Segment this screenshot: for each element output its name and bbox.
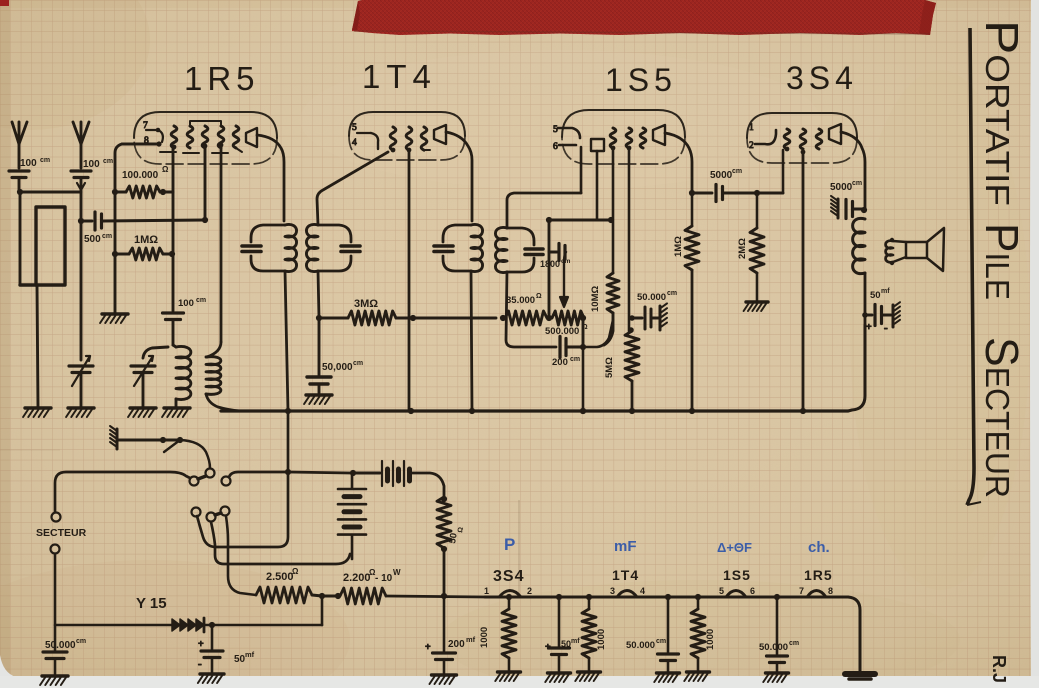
- svg-text:1000: 1000: [596, 629, 607, 650]
- svg-text:7: 7: [799, 586, 804, 596]
- svg-text:50: 50: [234, 654, 246, 665]
- svg-text:2MΩ: 2MΩ: [737, 238, 748, 259]
- svg-text:cm: cm: [789, 640, 799, 647]
- svg-text:-: -: [198, 658, 202, 670]
- svg-text:SECTEUR: SECTEUR: [36, 527, 87, 539]
- svg-text:4: 4: [640, 586, 645, 596]
- svg-text:3S4: 3S4: [786, 60, 858, 96]
- svg-text:50.000: 50.000: [45, 640, 76, 651]
- svg-text:3MΩ: 3MΩ: [354, 298, 378, 310]
- svg-text:50,000: 50,000: [322, 362, 353, 373]
- svg-text:- 10: - 10: [375, 573, 393, 584]
- svg-text:cm: cm: [852, 180, 862, 187]
- svg-text:4: 4: [352, 138, 357, 148]
- svg-text:6: 6: [553, 142, 558, 152]
- svg-text:cm: cm: [40, 157, 50, 164]
- svg-text:1S5: 1S5: [723, 567, 751, 583]
- svg-text:1T4: 1T4: [362, 58, 437, 95]
- svg-text:Ω: Ω: [162, 165, 169, 174]
- svg-text:-: -: [884, 322, 888, 334]
- svg-text:6: 6: [750, 586, 755, 596]
- svg-text:5: 5: [352, 123, 357, 133]
- svg-text:500.000: 500.000: [545, 326, 579, 337]
- svg-text:8: 8: [828, 586, 833, 596]
- svg-text:3: 3: [610, 586, 615, 596]
- svg-text:1000: 1000: [705, 629, 716, 650]
- svg-text:cm: cm: [570, 356, 580, 363]
- svg-text:1MΩ: 1MΩ: [673, 236, 684, 257]
- svg-text:50.000: 50.000: [626, 640, 655, 651]
- svg-text:100: 100: [178, 298, 194, 309]
- svg-text:100.000: 100.000: [122, 170, 159, 181]
- svg-text:cm: cm: [76, 638, 86, 645]
- svg-text:Ω: Ω: [536, 293, 542, 300]
- svg-text:50: 50: [561, 639, 571, 649]
- svg-text:2: 2: [527, 586, 532, 596]
- svg-text:+: +: [545, 642, 551, 653]
- svg-text:cm: cm: [732, 168, 742, 175]
- svg-text:mF: mF: [614, 538, 637, 555]
- svg-text:500: 500: [84, 234, 101, 245]
- svg-text:Δ+ΘF: Δ+ΘF: [717, 540, 752, 555]
- svg-text:50: 50: [870, 290, 881, 301]
- svg-text:cm: cm: [196, 297, 206, 304]
- svg-text:1800: 1800: [540, 259, 560, 269]
- svg-text:P: P: [504, 535, 515, 554]
- svg-text:W: W: [393, 568, 401, 577]
- svg-text:2: 2: [749, 141, 754, 151]
- svg-text:cm: cm: [102, 233, 112, 240]
- svg-text:5000: 5000: [830, 182, 853, 193]
- svg-text:cm: cm: [561, 258, 571, 265]
- svg-text:1: 1: [484, 586, 489, 596]
- svg-text:1: 1: [749, 123, 754, 133]
- svg-text:Ω: Ω: [582, 324, 588, 331]
- svg-text:Ω: Ω: [292, 567, 299, 576]
- svg-text:1000: 1000: [479, 627, 490, 648]
- svg-text:35.000: 35.000: [506, 295, 535, 306]
- svg-text:3S4: 3S4: [493, 568, 524, 585]
- svg-text:+: +: [866, 322, 872, 333]
- svg-text:200: 200: [448, 639, 465, 650]
- svg-text:cm: cm: [656, 638, 666, 645]
- svg-text:mf: mf: [571, 638, 580, 645]
- svg-text:1R5: 1R5: [804, 567, 833, 583]
- svg-text:1S5: 1S5: [605, 62, 677, 98]
- svg-text:cm: cm: [667, 290, 677, 297]
- svg-text:mf: mf: [881, 288, 890, 295]
- svg-text:50.000: 50.000: [637, 292, 666, 303]
- svg-text:5MΩ: 5MΩ: [604, 357, 615, 378]
- svg-text:50.000: 50.000: [759, 642, 788, 653]
- svg-text:Y 15: Y 15: [136, 595, 167, 612]
- svg-text:5: 5: [553, 125, 558, 135]
- svg-text:10MΩ: 10MΩ: [590, 286, 601, 312]
- svg-text:2.200: 2.200: [343, 572, 371, 584]
- svg-text:50: 50: [447, 532, 460, 544]
- svg-text:5000: 5000: [710, 170, 733, 181]
- svg-text:200: 200: [552, 357, 568, 368]
- svg-text:ch.: ch.: [808, 539, 830, 556]
- svg-text:R.J: R.J: [989, 655, 1009, 683]
- svg-text:mf: mf: [245, 650, 255, 659]
- svg-text:cm: cm: [353, 360, 363, 367]
- svg-text:mf: mf: [466, 635, 476, 644]
- svg-text:5: 5: [719, 586, 724, 596]
- svg-text:100: 100: [83, 159, 100, 170]
- svg-text:100: 100: [20, 158, 37, 169]
- svg-text:1T4: 1T4: [612, 567, 639, 583]
- svg-text:+: +: [425, 642, 431, 653]
- svg-text:2.500: 2.500: [266, 571, 294, 583]
- svg-text:1MΩ: 1MΩ: [134, 234, 158, 246]
- svg-text:1R5: 1R5: [184, 60, 260, 97]
- svg-text:+: +: [198, 639, 204, 650]
- svg-text:cm: cm: [103, 158, 113, 165]
